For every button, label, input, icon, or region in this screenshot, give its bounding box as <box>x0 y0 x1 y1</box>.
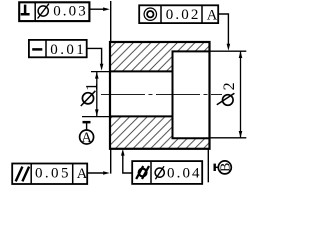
svg-text:2: 2 <box>221 82 238 90</box>
FCF cylindricity 0.04 frame <box>132 161 202 184</box>
bore 1 white <box>110 71 173 116</box>
dimension D2 label digit 2 <box>221 82 238 90</box>
dimension D2 label diameter glyph <box>217 93 235 105</box>
part outline <box>110 42 210 149</box>
FCF straightness 0.01 frame <box>29 40 87 57</box>
datum B symbol <box>214 161 234 174</box>
part body hatched section <box>110 42 210 149</box>
arrow of FCF5 leader <box>121 149 125 156</box>
leader of FCF1 <box>89 8 103 10</box>
FCF parallelism 0.05 A frame <box>12 164 87 185</box>
svg-text:0.02: 0.02 <box>166 7 201 23</box>
dimension D1 line <box>96 72 98 116</box>
dimension D1 extension lines <box>82 72 110 117</box>
svg-text:0.05: 0.05 <box>35 166 71 182</box>
svg-text:0.04: 0.04 <box>167 165 202 181</box>
svg-text:0.01: 0.01 <box>50 42 86 58</box>
concentricity symbol <box>144 8 156 20</box>
FCF concentricity 0.02 A frame <box>139 5 218 23</box>
dimension D1 arrows <box>95 72 99 116</box>
diameter symbol in FCF1 <box>38 4 49 19</box>
bore 2 white <box>173 51 210 138</box>
straightness symbol <box>32 48 42 51</box>
cylindricity symbol <box>136 166 149 179</box>
dimension D2 extension lines <box>211 51 247 138</box>
dimension D2 arrows <box>239 51 243 137</box>
extension line of right face below part <box>207 148 209 182</box>
leader of FCF4 <box>87 172 103 174</box>
diameter symbol in FCF5 <box>155 166 164 179</box>
leader of FCF5 <box>123 155 132 173</box>
dimension D1 label diameter glyph <box>81 91 96 106</box>
arrow of FCF1 leader <box>103 7 110 11</box>
arrow of FCF2 leader <box>100 64 104 71</box>
arrow of FCF3 leader <box>227 44 231 51</box>
FCF perpendicularity 0.03 frame <box>19 2 89 21</box>
leader of FCF2 <box>87 48 102 64</box>
dimension D1 label digit 1 <box>84 83 101 91</box>
svg-text:A: A <box>81 130 92 146</box>
svg-text:0.03: 0.03 <box>53 4 88 20</box>
svg-text:A: A <box>77 166 88 182</box>
bore 1 edges <box>110 71 173 116</box>
dimension D2 line <box>240 51 242 137</box>
leader of FCF3 <box>218 14 228 44</box>
extension line of left face below part <box>110 148 112 174</box>
centerline (axis) <box>101 94 222 96</box>
svg-text:1: 1 <box>84 83 101 91</box>
parallelism symbol <box>16 167 29 182</box>
svg-text:A: A <box>207 7 218 23</box>
perpendicularity symbol <box>21 5 30 15</box>
arrow of FCF4 leader <box>103 171 110 175</box>
datum A symbol <box>80 121 94 146</box>
bore 2 edges <box>173 51 210 138</box>
extension line of left face above part <box>110 1 112 42</box>
svg-text:B: B <box>218 163 233 172</box>
